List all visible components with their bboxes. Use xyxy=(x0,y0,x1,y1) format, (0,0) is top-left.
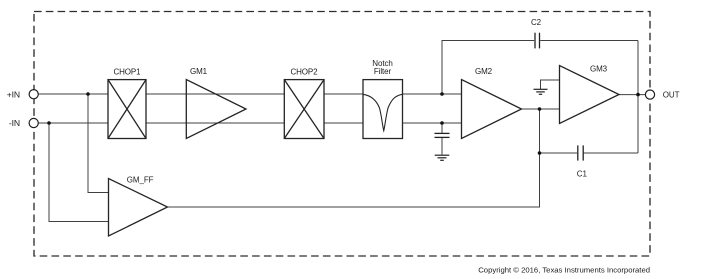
svg-text:GM1: GM1 xyxy=(190,67,208,76)
wire -IN rail: CHOP1 to CHOP2 (through GM1) xyxy=(146,122,284,124)
wire +IN rail: CHOP2 to Notch Filter xyxy=(324,93,363,95)
wire GM_FF upper input (from +IN rail) xyxy=(88,94,109,193)
svg-text:Copyright © 2016, Texas Instru: Copyright © 2016, Texas Instruments Inco… xyxy=(478,266,650,275)
terminal +IN xyxy=(29,90,38,99)
wire +IN rail: terminal to CHOP1 xyxy=(38,93,108,95)
node GM2 output / summing junction xyxy=(538,107,542,111)
device boundary (dashed) xyxy=(34,12,650,257)
wire C1 rail (left half) xyxy=(540,152,578,154)
wire internal cap tap (lower rail to cap) xyxy=(441,123,443,133)
wire C2 feedback top rail (right half) xyxy=(540,40,638,42)
notch filter block xyxy=(363,80,403,139)
wire GM3 non-inverting input to ground xyxy=(541,80,560,89)
ground (GM3 non-inverting input) xyxy=(534,89,548,94)
chopper CHOP1 xyxy=(108,80,146,139)
capacitor C1 xyxy=(578,145,583,160)
capacitor C2 xyxy=(535,33,540,49)
wire GM_FF output to summing node xyxy=(168,109,540,207)
wire -IN rail: Notch Filter to GM2 xyxy=(403,122,462,124)
terminal -IN xyxy=(29,118,38,127)
wire +IN rail: CHOP1 to CHOP2 (through GM1) xyxy=(146,93,284,95)
svg-text:GM3: GM3 xyxy=(590,64,608,73)
svg-text:-IN: -IN xyxy=(9,118,20,128)
svg-text:+IN: +IN xyxy=(7,89,20,99)
node top rail C2 tap xyxy=(440,92,444,96)
node on -IN rail (GM_FF tap) xyxy=(47,121,51,125)
wire -IN rail: CHOP2 to Notch Filter xyxy=(324,122,363,124)
wire +IN rail: Notch Filter to GM2 xyxy=(403,93,462,95)
svg-text:Filter: Filter xyxy=(374,67,392,76)
svg-text:CHOP2: CHOP2 xyxy=(290,67,318,76)
node output junction xyxy=(636,93,640,97)
wire C2 feedback top rail (left half) xyxy=(442,41,534,95)
wire C1 rail (right half) xyxy=(584,152,638,154)
ground (below internal capacitor) xyxy=(435,155,450,160)
wire GM_FF lower input (from -IN rail) xyxy=(49,123,109,222)
wire GM2 output to GM3 inverting input xyxy=(522,108,560,110)
svg-text:C1: C1 xyxy=(577,169,588,178)
op-amp GM1 xyxy=(186,80,246,139)
internal notch capacitor (unlabeled) xyxy=(435,133,450,137)
wire GM3 output to OUT terminal xyxy=(619,94,645,96)
wire -IN rail: terminal to CHOP1 xyxy=(38,122,108,124)
chopper CHOP2 xyxy=(284,80,324,139)
terminal OUT xyxy=(645,90,654,99)
node C1 left tap xyxy=(538,151,542,155)
svg-text:GM2: GM2 xyxy=(475,67,493,76)
op-amp GM2 xyxy=(462,80,522,139)
svg-text:GM_FF: GM_FF xyxy=(127,175,154,184)
node bottom rail cap tap xyxy=(440,121,444,125)
svg-text:C2: C2 xyxy=(531,18,542,27)
wire internal cap to ground xyxy=(441,137,443,155)
svg-text:OUT: OUT xyxy=(663,91,680,100)
node on +IN rail (GM_FF tap) xyxy=(86,92,90,96)
wire output vertical (C2 rail to C1 rail) xyxy=(637,41,639,154)
op-amp GM_FF (feedforward) xyxy=(109,179,168,237)
op-amp GM3 xyxy=(560,66,620,124)
svg-text:CHOP1: CHOP1 xyxy=(113,67,141,76)
